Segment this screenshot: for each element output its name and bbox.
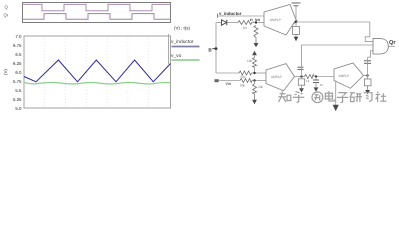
resistor R4 50k (row y=80.5)	[240, 79, 252, 88]
svg-text:5.25: 5.25	[13, 97, 22, 102]
svg-text:10k: 10k	[258, 85, 264, 89]
resistor R6 (vertical below row)	[253, 81, 264, 95]
watermark char 电	[325, 91, 334, 101]
wire R5 to node	[254, 68, 256, 74]
op-amp U2	[266, 64, 295, 91]
wire B bus to row	[216, 72, 239, 74]
wire box to ground	[295, 35, 297, 38]
ground (under C2)	[314, 87, 319, 91]
wire R6 to ground	[254, 94, 256, 100]
svg-text:1n: 1n	[320, 83, 324, 87]
svg-text:AMPLP: AMPLP	[270, 18, 281, 22]
svg-text:6.75: 6.75	[13, 43, 22, 48]
resistor R7 (after U2 output)	[305, 75, 315, 84]
wire box B2 to ground	[301, 85, 303, 88]
svg-text:v_inductor: v_inductor	[219, 11, 242, 16]
wire v_inductor to U1 + input	[217, 14, 264, 19]
resistor R1 1m (horizontal)	[238, 21, 252, 31]
wire R7 to cap node	[314, 76, 334, 78]
node U2 output	[300, 75, 302, 77]
svg-text:(V) : t(s): (V) : t(s)	[174, 26, 190, 31]
wire W2 U1 output to gate (top long wire)	[296, 22, 373, 41]
svg-text:5.0: 5.0	[15, 106, 22, 111]
watermark @ zhihu logo	[312, 92, 323, 103]
svg-text:Qr: Qr	[4, 13, 9, 18]
resistor R3 50k (row y=73)	[239, 71, 252, 79]
node cap junction	[315, 75, 317, 77]
node B junction	[215, 47, 218, 50]
wire gate output	[388, 45, 395, 47]
svg-text:6.5: 6.5	[15, 52, 22, 57]
wire diode row left	[216, 22, 222, 24]
bias box B2 (U2 output stage)	[298, 79, 304, 85]
svg-text:v_inductor: v_inductor	[171, 39, 194, 45]
bias box B1 (U1 output stage)	[293, 27, 300, 35]
legend label v_inductor	[171, 39, 194, 45]
ground (U1 output stage)	[294, 37, 299, 41]
resistor R5 (vertical above row)	[247, 58, 257, 68]
watermark char 子	[337, 93, 348, 103]
wire U1 output column	[295, 6, 297, 27]
legend swatch v_vo	[172, 59, 200, 61]
waveform Q trace	[23, 4, 171, 10]
wire diode to resistor	[227, 22, 238, 24]
net label v_inductor	[219, 11, 242, 16]
svg-text:Q: Q	[5, 5, 9, 10]
plot box top chart	[23, 3, 171, 23]
node R6 junction	[253, 79, 255, 81]
net label Qr	[389, 40, 396, 46]
y axis unit label (V)	[3, 69, 8, 75]
grid lines top chart	[42, 3, 152, 23]
svg-text:Qr: Qr	[389, 40, 396, 46]
svg-text:7.0: 7.0	[15, 34, 22, 39]
op-amp U3	[334, 63, 364, 88]
wire gnd to R5	[254, 56, 256, 58]
wire box B3 to ground	[367, 86, 369, 90]
node R5 junction	[253, 72, 255, 74]
ground (U3 output stage)	[365, 90, 370, 94]
wire Vin to R4	[219, 80, 240, 82]
svg-text:1m: 1m	[243, 26, 248, 30]
svg-text:1k: 1k	[306, 79, 310, 83]
svg-text:n_vo: n_vo	[250, 17, 260, 22]
bias box B3 (U3 output stage)	[364, 79, 371, 86]
wire R3 to node	[252, 72, 267, 74]
node Q axis label	[5, 5, 9, 10]
svg-text:(V): (V)	[3, 69, 8, 75]
svg-text:AMPLP: AMPLP	[339, 74, 350, 78]
diode D1	[222, 20, 227, 25]
resistor R2 (vertical under n_vo)	[254, 26, 258, 38]
wire U3 output	[364, 75, 368, 77]
legend swatch v_inductor	[172, 46, 200, 48]
ground (above R5, pointing up)	[252, 51, 257, 55]
waveform v_vo green trace	[24, 82, 171, 83]
watermark char 社	[376, 92, 387, 102]
node U1 output	[295, 21, 297, 23]
svg-text:v_vo: v_vo	[171, 54, 182, 59]
wire U3 output column	[367, 57, 369, 79]
wire U2 output up to gate middle input	[302, 45, 374, 77]
node U3 output	[366, 74, 368, 76]
ground (under U3, long stem)	[333, 81, 339, 112]
wire U2 output	[295, 76, 305, 78]
svg-text:6.0: 6.0	[15, 70, 22, 75]
watermark char 研	[350, 93, 362, 102]
svg-text:Vin: Vin	[226, 82, 232, 86]
power symbol above U1 output stage	[292, 3, 301, 6]
op-amp U1	[264, 5, 296, 36]
AND gate G1	[373, 39, 388, 54]
waveform v_inductor blue triangle trace	[24, 60, 171, 82]
svg-text:50k: 50k	[240, 83, 246, 87]
waveform Qr trace	[23, 14, 171, 20]
wire left vertical bus	[215, 23, 217, 74]
svg-text:6.25: 6.25	[13, 61, 22, 66]
plot box bottom chart	[24, 36, 171, 108]
ground (U2 output stage)	[299, 88, 304, 92]
grid lines bottom chart	[45, 36, 149, 108]
y axis tick labels	[13, 34, 22, 111]
wire U1 output	[295, 20, 297, 22]
node n_vo	[250, 17, 260, 24]
svg-text:5.5: 5.5	[15, 88, 22, 93]
watermark char 知	[278, 91, 291, 102]
legend label v_vo	[171, 54, 182, 59]
capacitor C3 (U3 output stage)	[364, 61, 371, 64]
port B input	[208, 47, 216, 52]
node Qr axis label	[4, 13, 9, 18]
svg-text:B: B	[208, 47, 212, 52]
capacitor C1 (on U2 output column)	[298, 67, 304, 69]
transistor Q1 (U1 output stage)	[293, 20, 298, 25]
svg-text:AMPLP: AMPLP	[271, 75, 282, 79]
ground (under R2)	[254, 38, 259, 48]
wire resistor to node n_vo	[251, 22, 264, 24]
ground (under R6)	[252, 100, 257, 104]
watermark char 乎	[293, 92, 304, 103]
wire U3 output up to gate bottom input	[368, 51, 374, 58]
voltage source Vin	[215, 79, 232, 86]
chart title (V) : t(s)	[174, 26, 190, 31]
svg-text:10k: 10k	[247, 59, 253, 63]
legend panel border	[168, 34, 170, 64]
capacitor C2 (to ground)	[313, 77, 323, 88]
wire R4 to node	[252, 80, 266, 82]
svg-text:5.75: 5.75	[13, 79, 22, 84]
watermark char 习	[364, 93, 372, 102]
